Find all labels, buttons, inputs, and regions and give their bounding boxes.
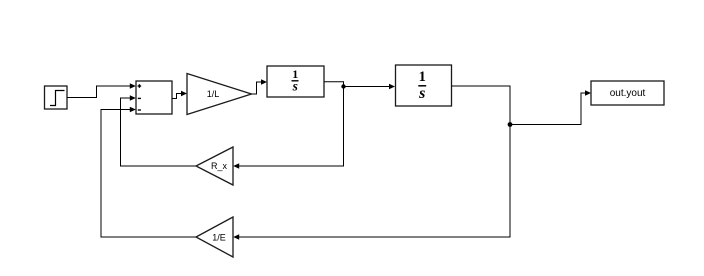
output block out.yout [591,81,664,105]
wire integrator2 output to out block [452,86,592,125]
sum block S1 [136,81,172,114]
wire node B to gain 1/E input [233,125,510,240]
wire gain 1/E output to sum minus input (bottom) [101,107,196,237]
gain 1/E (feedback) [196,217,233,257]
svg-text:s: s [418,85,425,102]
integrator block 1/s (second) [396,65,452,106]
wire integrator1 output to integrator2 input [324,82,395,90]
svg-text:out.yout: out.yout [610,88,646,99]
svg-text:1/L: 1/L [207,89,220,99]
wire step output to sum + input [67,83,136,97]
svg-text:R_x: R_x [211,161,228,171]
gain 1/L [187,74,252,115]
wire gain 1/L output to integrator 1 input [252,79,268,94]
step source block U1 [45,86,68,109]
svg-text:s: s [292,79,298,94]
svg-text:1: 1 [419,69,426,85]
junction node B [508,122,513,127]
integrator block 1/s (first) [267,66,324,97]
svg-text:1/E: 1/E [212,233,226,243]
junction node A [341,84,345,88]
gain R_x (feedback) [196,147,233,185]
wire sum output to gain 1/L input [172,91,187,99]
wire gain R_x output to sum minus input (middle) [121,95,197,166]
wire node A to gain R_x input [233,87,343,169]
